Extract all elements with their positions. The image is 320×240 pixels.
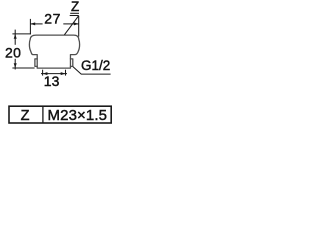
dim 20: bottom extension line xyxy=(12,67,34,69)
collar right flange xyxy=(70,59,72,67)
dim 20: top extension line xyxy=(12,33,31,35)
svg-text:Z: Z xyxy=(71,0,79,14)
dim 27: right extension line xyxy=(78,16,80,37)
dim 27: left extension line xyxy=(29,19,31,35)
dim 20: dimension line upper segment xyxy=(14,30,16,45)
svg-text:27: 27 xyxy=(44,10,61,26)
dim 13: dimension line xyxy=(41,73,67,75)
dim 13: left arrow xyxy=(43,72,48,75)
part body outline (cap nut with G1/2 male thread) xyxy=(29,35,79,68)
label Z leader horizontal segment xyxy=(70,15,79,17)
label Z leader diagonal to part top xyxy=(64,16,78,35)
label G1/2 underline xyxy=(81,73,111,75)
svg-text:G1/2: G1/2 xyxy=(81,58,110,73)
dim 20: dimension line lower segment xyxy=(14,59,16,70)
table divider xyxy=(42,106,44,123)
dim 27: right arrow xyxy=(74,22,79,25)
svg-text:13: 13 xyxy=(44,73,60,89)
collar left flange xyxy=(35,59,37,67)
cap + neck + thread silhouette xyxy=(29,35,79,68)
dim 27: dimension line left segment xyxy=(31,23,43,25)
svg-text:20: 20 xyxy=(5,44,21,60)
dim 27: left arrow xyxy=(30,22,35,25)
table outer border xyxy=(9,106,111,123)
svg-text:Z: Z xyxy=(21,108,30,124)
dim 13: left extension bar xyxy=(42,70,44,76)
dim 20: bottom arrow xyxy=(14,63,17,68)
label Z underline xyxy=(70,12,79,14)
dim 13: right extension bar xyxy=(65,70,67,76)
dim 13: right arrow xyxy=(61,72,66,75)
dim 20: top arrow xyxy=(14,34,17,39)
svg-text:M23×1.5: M23×1.5 xyxy=(48,107,108,124)
label G1/2 leader line xyxy=(73,67,81,75)
dim 27: dimension line right segment xyxy=(63,23,78,25)
